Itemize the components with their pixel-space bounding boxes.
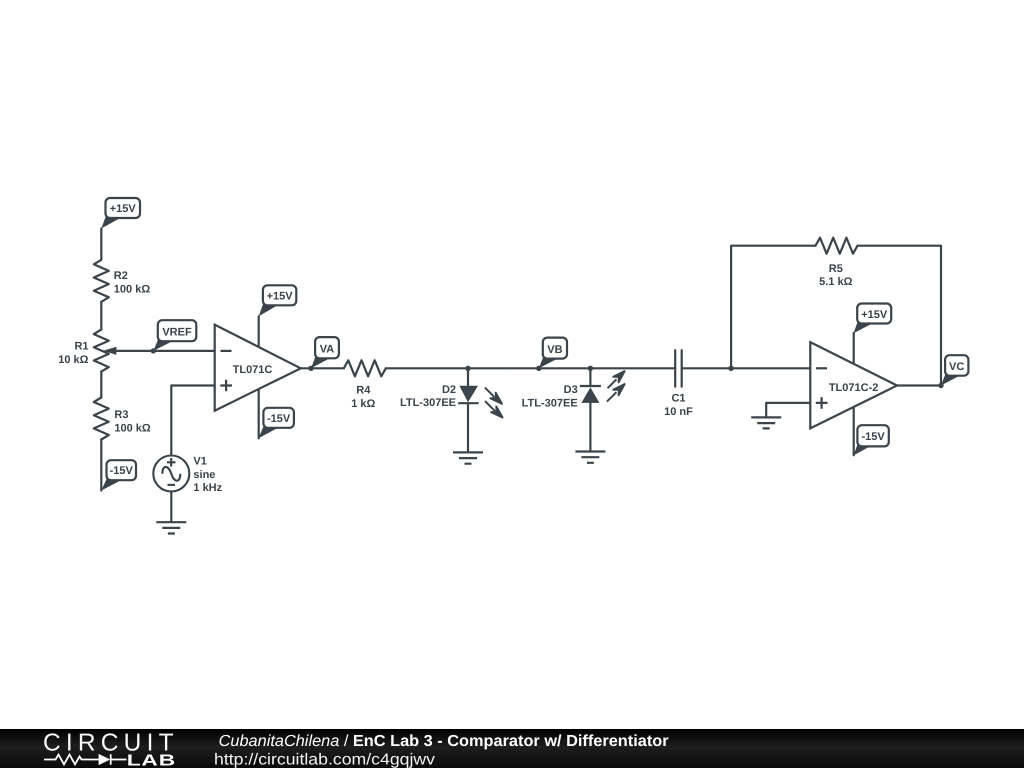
svg-text:V1: V1: [193, 456, 206, 468]
op-amp U1 body: [215, 325, 301, 411]
ground below D2: [453, 452, 483, 463]
capacitor C1 plates: [675, 350, 682, 386]
junction dot at D2: [465, 366, 470, 371]
LED D3: [580, 371, 625, 403]
wire ground stub to op-amp U2 non-inverting input: [766, 403, 810, 418]
junction dot at node VC: [938, 383, 943, 388]
wire op-amp U1 negative supply: [258, 384, 260, 438]
flag VREF: [153, 320, 196, 351]
resistor R5 label: [819, 263, 852, 288]
svg-text:sine: sine: [193, 469, 215, 481]
wire D3 anode to ground: [589, 403, 591, 452]
svg-text:TL071C-2: TL071C-2: [829, 382, 879, 394]
wire R1 to R3: [100, 372, 102, 398]
svg-text:TL071C: TL071C: [233, 364, 273, 376]
flag +15V at resistor chain: [101, 198, 140, 229]
wire R4 to C1 through nodes VB: [386, 367, 675, 369]
svg-text:-15V: -15V: [110, 465, 134, 477]
wire R1 wiper to op-amp U1 inverting input: [115, 350, 215, 352]
resistor R2 label: [114, 270, 151, 295]
resistor R4 label: [351, 385, 375, 410]
svg-text:D2: D2: [442, 384, 456, 396]
junction dot at node VB: [536, 366, 541, 371]
svg-text:10 kΩ: 10 kΩ: [58, 354, 88, 366]
junction dot at D3: [588, 366, 593, 371]
wire top segment from +15V flag to R2: [100, 229, 102, 260]
svg-text:LTL-307EE: LTL-307EE: [522, 397, 578, 409]
svg-text:-15V: -15V: [267, 413, 291, 425]
LED D3 label: [522, 384, 578, 409]
junction dot at feedback node: [728, 366, 733, 371]
flag -15V at resistor chain: [101, 460, 136, 490]
CircuitLab logo resistor-diode glyph: [44, 754, 127, 764]
potentiometer R1 body: [94, 330, 109, 372]
ground below V1: [156, 522, 186, 533]
ground at op-amp U2 non-inverting input: [751, 417, 781, 428]
svg-text:1 kHz: 1 kHz: [193, 482, 222, 494]
svg-text:R3: R3: [114, 409, 128, 421]
svg-text:LTL-307EE: LTL-307EE: [400, 397, 456, 409]
svg-text:5.1 kΩ: 5.1 kΩ: [819, 276, 852, 288]
svg-text:VB: VB: [547, 344, 562, 356]
wire D3 cathode stub: [589, 368, 591, 386]
svg-text:1 kΩ: 1 kΩ: [351, 398, 375, 410]
LED D2 label: [400, 384, 456, 409]
resistor R3: [94, 398, 109, 440]
resistor R4: [344, 360, 386, 376]
wire op-amp U1 positive supply: [258, 316, 260, 352]
flag +15V at op-amp U1: [259, 285, 297, 316]
flag +15V at op-amp U2: [854, 304, 892, 334]
wire op-amp U2 positive supply: [853, 333, 855, 366]
svg-text:100 kΩ: 100 kΩ: [114, 284, 151, 296]
resistor R3 label: [114, 409, 151, 434]
svg-text:CubanitaChilena / EnC Lab 3 -: CubanitaChilena / EnC Lab 3 - Comparator…: [219, 733, 669, 750]
flag VA: [311, 337, 339, 368]
wire feedback node up to R5: [731, 246, 815, 369]
svg-text:R5: R5: [829, 263, 843, 275]
footer bar: [0, 729, 1024, 768]
svg-text:VREF: VREF: [162, 326, 192, 338]
flag VB: [539, 338, 567, 369]
svg-text:+15V: +15V: [110, 203, 137, 215]
resistor R2: [94, 260, 109, 302]
wire D2 cathode to ground: [467, 403, 469, 452]
capacitor C1 label: [664, 393, 693, 418]
resistor R5: [816, 238, 858, 254]
voltage source V1: [153, 456, 189, 492]
LED D2: [458, 386, 502, 418]
wire R2 to R1: [100, 302, 102, 330]
junction dot at node VREF: [151, 348, 156, 353]
svg-text:10 nF: 10 nF: [664, 406, 693, 418]
svg-text:http://circuitlab.com/c4gqjwv: http://circuitlab.com/c4gqjwv: [214, 751, 435, 768]
wire R3 to -15V flag: [100, 440, 102, 491]
potentiometer R1 wiper arrow: [103, 347, 116, 355]
svg-text:-15V: -15V: [861, 431, 885, 443]
flag VC: [941, 355, 968, 385]
wire D2 anode stub: [467, 368, 469, 386]
svg-text:LAB: LAB: [127, 753, 176, 768]
flag -15V at op-amp U2: [854, 425, 889, 455]
svg-text:R1: R1: [74, 340, 88, 352]
svg-text:VA: VA: [320, 344, 335, 356]
svg-text:+15V: +15V: [861, 309, 888, 321]
wire V1 to op-amp U1 non-inverting input: [171, 386, 214, 456]
svg-text:R2: R2: [114, 270, 128, 282]
junction dot at node VA: [308, 366, 313, 371]
op-amp U2 body: [810, 342, 897, 428]
wire C1 to op-amp U2 inverting input: [682, 367, 811, 369]
ground below D3: [575, 452, 605, 463]
svg-text:+15V: +15V: [267, 290, 294, 302]
wire op-amp U1 output to R4: [301, 367, 344, 369]
svg-text:C1: C1: [671, 393, 685, 405]
svg-text:VC: VC: [949, 361, 964, 373]
flag -15V at op-amp U1: [259, 408, 294, 439]
wire R5 to output node VC: [858, 246, 942, 386]
svg-text:R4: R4: [356, 385, 371, 397]
wire V1 bottom to ground: [170, 492, 172, 523]
wire op-amp U2 output: [897, 384, 942, 386]
svg-text:100 kΩ: 100 kΩ: [114, 422, 151, 434]
voltage source V1 value label: [193, 456, 222, 494]
potentiometer R1 label: [58, 340, 88, 366]
svg-text:D3: D3: [564, 384, 578, 396]
wire op-amp U2 negative supply: [853, 405, 855, 455]
